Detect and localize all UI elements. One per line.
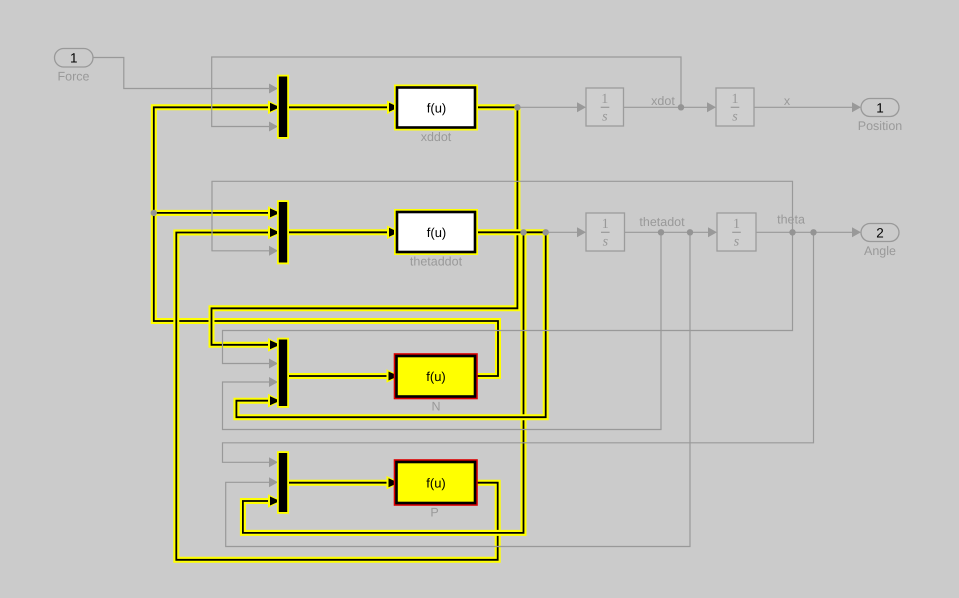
block xddot Fcn (highlighted, white): [396, 86, 477, 129]
svg-text:1: 1: [70, 51, 78, 66]
svg-text:1: 1: [602, 217, 609, 232]
arrowhead highlighted thetaddot block input: [387, 226, 401, 240]
svg-text:xddot: xddot: [421, 130, 452, 144]
node junction on N loop at Mux2 in1 branch: [151, 210, 157, 216]
arrowhead gray Mux3 in3: [269, 377, 278, 387]
svg-text:1: 1: [876, 100, 884, 115]
mux Mux4 (highlighted): [278, 452, 288, 513]
arrowhead gray Mux1 in3: [269, 122, 278, 132]
wire thetaddot branch to Mux3 in4 (highlighted): [236, 232, 545, 417]
svg-text:thetadot: thetadot: [639, 215, 685, 229]
block Integrator3 1/s: [586, 213, 625, 251]
node junction theta B: [810, 229, 816, 235]
svg-text:f(u): f(u): [427, 225, 447, 240]
wire xdot Integrator1 to Integrator2: [624, 106, 710, 108]
arrowhead highlighted Mux1 in2: [268, 101, 282, 115]
svg-text:Force: Force: [58, 70, 90, 84]
arrowhead highlighted P block input: [387, 476, 401, 490]
wire Force inport to Mux1 in1: [93, 58, 271, 89]
block P Fcn (highlighted, yellow fill, red border): [395, 461, 477, 505]
arrowhead highlighted Mux2 in2: [268, 226, 282, 240]
wire thetaddot to Integrator3: [546, 231, 579, 233]
wire theta feedback to Mux4 in1: [223, 232, 814, 462]
node junction thetaddot output A: [520, 229, 526, 235]
arrowhead gray Integrator2 input: [707, 102, 716, 112]
svg-text:N: N: [431, 400, 440, 414]
wire theta feedback to Mux2 in3: [212, 181, 793, 251]
node junction xddot output: [514, 104, 520, 110]
svg-text:x: x: [784, 94, 791, 108]
wire thetadot feedback to Mux4 in2: [226, 232, 690, 546]
svg-text:f(u): f(u): [426, 476, 446, 491]
block N Fcn (highlighted, yellow fill, red border): [395, 355, 477, 399]
wire N output loop to Mux1 in2 (highlighted): [154, 107, 498, 376]
block Integrator4 1/s: [717, 213, 756, 251]
wire xddot branch to Mux3 in1 (highlighted): [212, 107, 518, 344]
svg-text:P: P: [430, 506, 438, 520]
wire x Integrator2 to Position outport: [754, 106, 854, 108]
arrowhead highlighted Mux3 in1: [268, 338, 282, 352]
inport 1 Force: [55, 49, 94, 68]
wire P output loop to Mux2 in2 (highlighted): [176, 233, 497, 560]
arrowhead gray Mux3 in2: [269, 359, 278, 369]
svg-text:f(u): f(u): [426, 369, 446, 384]
arrowhead gray Position outport input: [852, 102, 861, 112]
block thetaddot Fcn (highlighted, white): [396, 211, 477, 254]
node junction thetaddot output B: [543, 229, 549, 235]
wire thetaddot output to junctions (highlighted): [475, 229, 546, 235]
svg-text:2: 2: [876, 225, 884, 240]
node junction thetadot B: [687, 229, 693, 235]
mux Mux1 (highlighted): [278, 76, 288, 138]
svg-text:thetaddot: thetaddot: [410, 255, 463, 269]
wire Mux1 output to xddot block (highlighted): [287, 104, 388, 110]
node junction thetadot A: [658, 229, 664, 235]
arrowhead highlighted N block input: [387, 369, 401, 383]
wire Mux4 output to P block (highlighted): [287, 480, 389, 486]
wire thetaddot branch to Mux4 in3 (highlighted): [243, 232, 524, 533]
svg-text:1: 1: [601, 92, 608, 107]
svg-text:Angle: Angle: [864, 244, 896, 258]
arrowhead gray Integrator1 input: [577, 102, 586, 112]
arrowhead gray Mux1 in1: [269, 84, 278, 94]
svg-text:s: s: [734, 234, 740, 249]
arrowhead gray Integrator3 input: [577, 227, 586, 237]
node junction xdot: [678, 104, 684, 110]
mux Mux2 (highlighted): [278, 201, 288, 263]
wire xddot output to junction (highlighted): [475, 104, 517, 110]
arrowhead highlighted xddot block input: [387, 101, 401, 115]
wire branch junction to Mux2 in1 (highlighted): [154, 210, 268, 216]
wire xddot to Integrator1: [517, 106, 579, 108]
block Integrator2 1/s: [716, 88, 754, 126]
wire Mux3 output to N block (highlighted): [287, 373, 389, 379]
svg-text:f(u): f(u): [427, 100, 447, 115]
svg-text:Position: Position: [858, 119, 903, 133]
arrowhead highlighted Mux3 in4: [268, 394, 282, 408]
svg-text:1: 1: [732, 92, 739, 107]
svg-text:s: s: [732, 109, 738, 124]
wire xdot feedback to Mux1 in3: [212, 57, 681, 127]
arrowhead gray Integrator4 input: [708, 227, 717, 237]
wire theta feedback to Mux3 in2: [223, 232, 793, 363]
arrowhead highlighted Mux2 in1: [268, 206, 282, 220]
node junction theta A: [789, 229, 795, 235]
arrowhead gray Mux4 in1: [269, 457, 278, 467]
svg-text:theta: theta: [777, 213, 805, 227]
mux Mux3 (highlighted): [278, 339, 288, 407]
arrowhead gray Mux2 in3: [269, 246, 278, 256]
wire thetadot Integrator3 to Integrator4: [625, 231, 711, 233]
outport 1 Position: [861, 99, 899, 117]
arrowhead highlighted Mux4 in3: [268, 494, 282, 508]
outport 2 Angle: [861, 224, 899, 242]
svg-text:s: s: [603, 234, 609, 249]
arrowhead gray Mux4 in2: [269, 477, 278, 487]
svg-text:s: s: [602, 109, 608, 124]
svg-text:xdot: xdot: [651, 94, 675, 108]
wire thetadot feedback to Mux3 in3: [223, 232, 662, 429]
block Integrator1 1/s: [586, 88, 624, 126]
wire theta Integrator4 to Angle outport: [756, 231, 854, 233]
svg-text:1: 1: [733, 217, 740, 232]
arrowhead gray Angle outport input: [852, 227, 861, 237]
wire Mux2 output to thetaddot block (highlighted): [287, 229, 388, 235]
